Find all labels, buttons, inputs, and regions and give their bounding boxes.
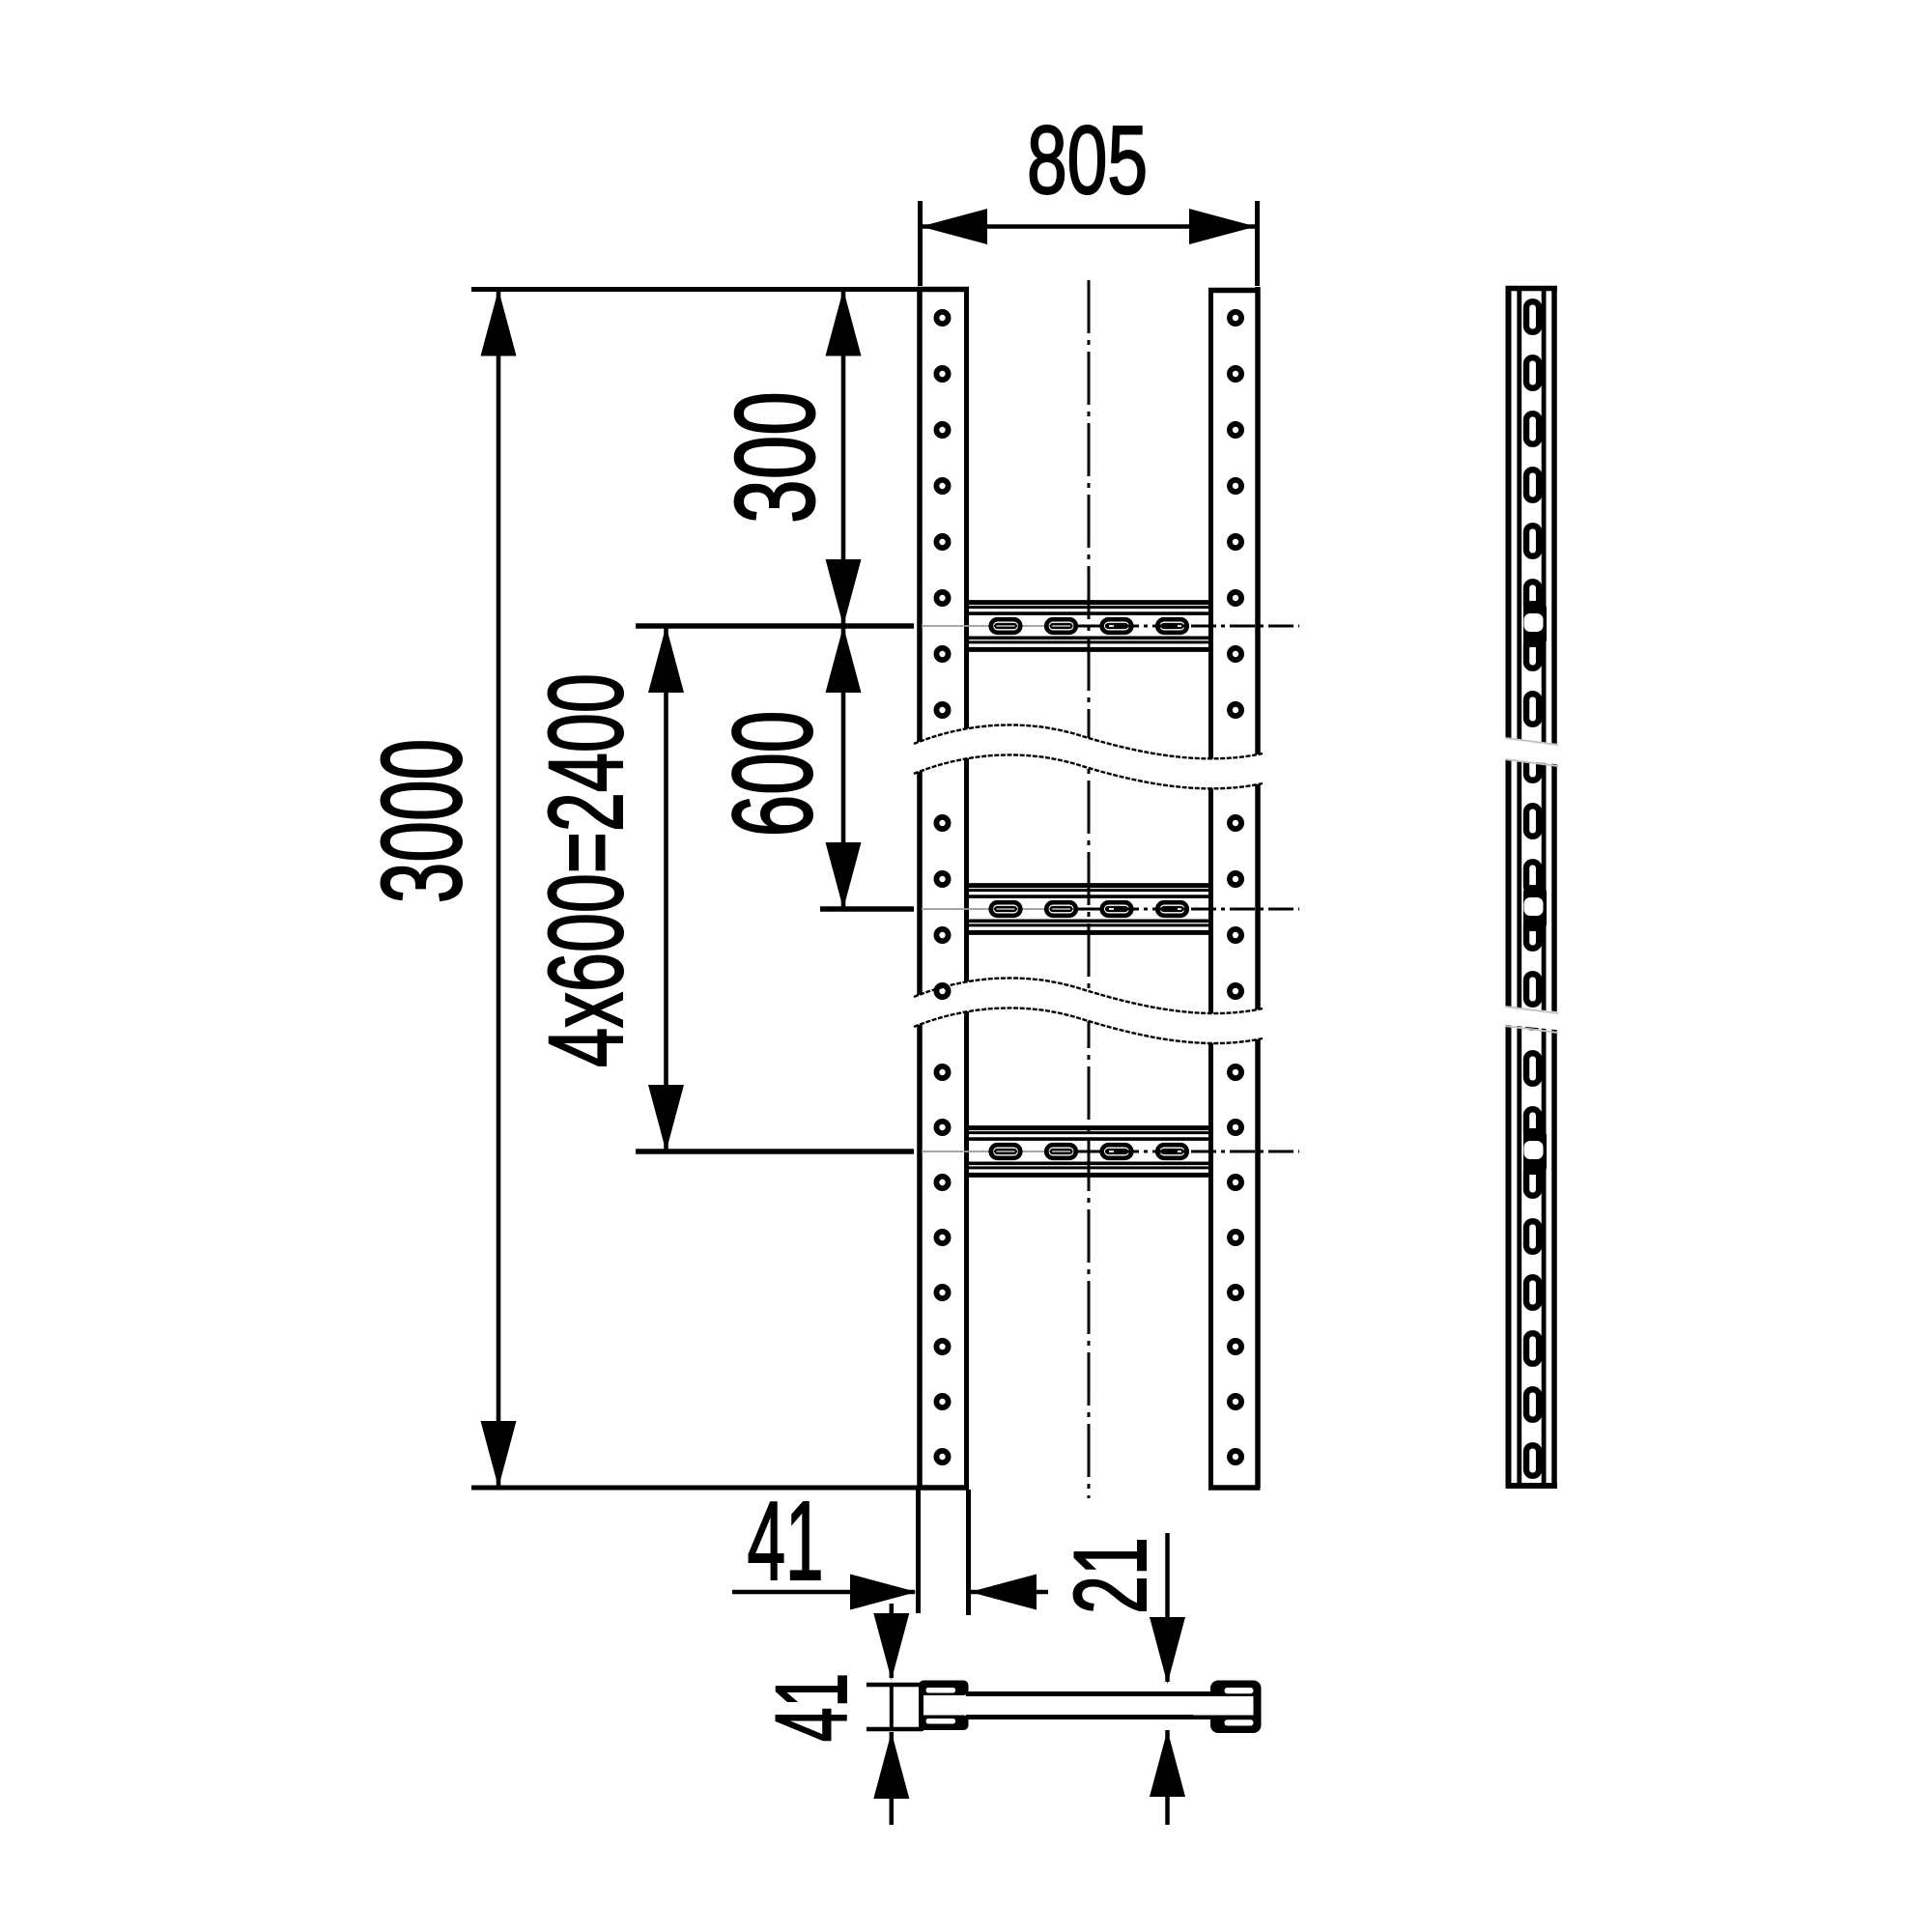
dim 300 arrow bottom [826, 559, 862, 626]
side view segment 3 [1506, 997, 1558, 1486]
rung 1 [922, 603, 1299, 650]
plan view: left rail inner edge [964, 289, 969, 1488]
dim 805 arrow right [1189, 209, 1256, 244]
plan view: left rail bottom cap [917, 1485, 969, 1491]
dim 21 arrow down [1150, 1617, 1185, 1684]
dim 41 rail-width arrow right [970, 1575, 1037, 1610]
dim 41 rail-width right extension [966, 1490, 971, 1615]
side view rung 1 joint blob [1523, 601, 1547, 647]
right rail holes column (donut holes) [1230, 312, 1241, 1463]
dim 805 extension line left [918, 201, 923, 286]
dim 4x600=2400 arrow top [648, 626, 684, 693]
dim 21 line upper [1165, 1533, 1170, 1682]
dim 300 arrow top [826, 290, 862, 356]
dim 600 line [841, 628, 846, 907]
rung3 center extension line [636, 1149, 914, 1154]
dim 41 xsec line lower [890, 1732, 895, 1825]
dim 21 arrow up [1150, 1730, 1185, 1797]
side view segment 2 [1509, 750, 1555, 1016]
dim 3000 extension line top [471, 287, 918, 292]
rung1 center extension line [636, 623, 914, 629]
dim 4x600=2400 line [664, 628, 668, 1150]
svg-text:3000: 3000 [359, 739, 487, 904]
svg-text:41: 41 [755, 1673, 868, 1742]
cross-section left rail bottom stub line [867, 1727, 923, 1732]
svg-text:600: 600 [710, 711, 836, 838]
plan view: right rail bottom cap [1208, 1485, 1261, 1491]
cross-section left rail top flange (cut solid) [919, 1681, 969, 1696]
svg-text:21: 21 [1054, 1537, 1169, 1614]
dim 805 arrow left [921, 209, 987, 244]
svg-text:805: 805 [1027, 105, 1148, 213]
dim 4x600=2400 arrow bottom [648, 1085, 684, 1151]
dim 805 line [921, 224, 1256, 229]
break band 1 (white eraser between wavy lines) [914, 724, 1263, 788]
plan view: left rail outer edge [917, 287, 923, 1488]
dim 41 rail-width left extension [916, 1490, 921, 1613]
dim 3000 line [497, 291, 501, 1486]
side view segment 1 [1506, 286, 1558, 749]
cross-section left rail bottom flange (cut solid) [919, 1716, 969, 1731]
plan view: right rail top cap [1208, 288, 1261, 294]
rung 3 [922, 1128, 1299, 1176]
svg-text:300: 300 [713, 391, 838, 524]
cross-section rung bar top line [966, 1691, 1219, 1696]
dim 3000 arrow top [481, 290, 517, 356]
break wave 1 upper curve [914, 724, 1263, 758]
cross-section left rail web right edge [919, 1683, 923, 1731]
dim 41 rail-width line left [732, 1590, 915, 1595]
dim 41 xsec arrow down [873, 1613, 909, 1680]
dim 600 arrow bottom [826, 842, 862, 909]
side view rung 2 joint blob [1523, 885, 1547, 931]
rung 2 [922, 886, 1299, 933]
break wave 2 lower curve [914, 1008, 1263, 1043]
dim 41 xsec arrow up [873, 1732, 909, 1799]
dim 41 rail-width line right [970, 1590, 1048, 1595]
rung2 center extension line [820, 906, 914, 912]
cross-section rung bar bottom line [966, 1715, 1219, 1719]
svg-text:4x600=2400: 4x600=2400 [526, 673, 644, 1067]
dim 41 xsec web line [890, 1685, 894, 1729]
dim 600 arrow top [826, 626, 862, 693]
break wave 2 upper curve [914, 978, 1263, 1013]
cross-section right rail (cut solid) [1210, 1681, 1262, 1734]
side view rung 3 joint blob [1523, 1128, 1547, 1175]
dim 3000 arrow bottom [481, 1421, 517, 1488]
left rail holes column (donut holes) [936, 312, 948, 1463]
plan view: right rail inner edge [1208, 289, 1213, 1488]
dim 805 extension line right [1255, 201, 1260, 286]
plan view: right rail outer edge [1255, 287, 1261, 1488]
cross-section left rail top stub line [867, 1683, 923, 1688]
plan view: left rail top cap [917, 287, 969, 293]
break band 2 (white eraser between wavy lines) [914, 978, 1263, 1043]
svg-text:41: 41 [747, 1479, 823, 1604]
break wave 1 lower curve [914, 754, 1263, 788]
dim 41 xsec line upper [890, 1604, 895, 1678]
dim 3000 extension line bottom [471, 1486, 918, 1491]
side view break edge marks [1505, 738, 1558, 1033]
plan view: vertical centerline [1088, 280, 1091, 1498]
dim 41 rail-width arrow left [850, 1575, 917, 1610]
dim 300 line [841, 291, 846, 624]
dim 21 line lower [1165, 1730, 1170, 1825]
